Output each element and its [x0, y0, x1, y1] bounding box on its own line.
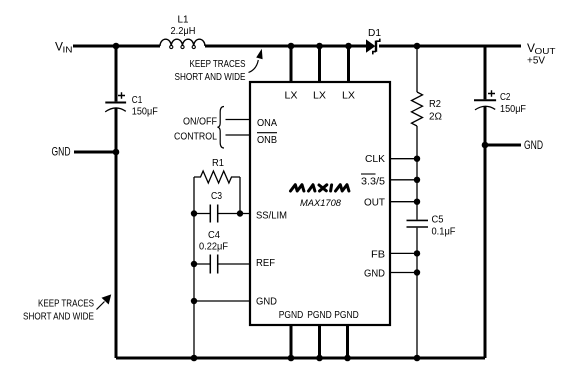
node junction C4 left [191, 261, 197, 267]
svg-text:0.22μF: 0.22μF [199, 241, 228, 253]
wire LX pin 1 [290, 45, 293, 83]
capacitor C2 [474, 90, 526, 115]
svg-text:150μF: 150μF [500, 103, 526, 115]
svg-text:IN: IN [63, 46, 73, 55]
svg-text:ONB: ONB [257, 134, 277, 146]
node junction bottom right thin rail [414, 355, 421, 362]
node junction FB [414, 250, 420, 256]
capacitor C1 [105, 92, 158, 117]
inductor L1 [160, 14, 205, 49]
svg-text:LX: LX [285, 90, 298, 102]
node VOUT label [527, 41, 556, 67]
svg-text:C4: C4 [208, 229, 220, 241]
pin label 3.3/5 (overline on 3.3) [361, 174, 385, 188]
wire ONB [226, 134, 251, 136]
node junction LX1 top [288, 43, 295, 50]
wire 3.3/5 pin [390, 179, 417, 181]
annotation KEEP TRACES SHORT AND WIDE (top) [175, 49, 263, 83]
svg-text:2.2μH: 2.2μH [171, 25, 196, 37]
svg-text:0.1μF: 0.1μF [432, 226, 456, 238]
node GND right [485, 138, 543, 152]
svg-text:C3: C3 [211, 190, 222, 202]
op-amp U1 MAX1708 IC box [250, 82, 390, 325]
node junction LX3 top [345, 43, 352, 50]
wire right thin rail bottom [416, 228, 418, 358]
resistor R2 [412, 92, 443, 126]
node junction bottom PGND1 [288, 355, 295, 362]
svg-text:MAX1708: MAX1708 [300, 198, 342, 209]
diode D1 (Schottky) [366, 27, 381, 54]
svg-text:GND: GND [52, 145, 71, 159]
node junction bottom PGND2 [316, 355, 323, 362]
wire right thin rail top [416, 46, 418, 92]
wire OUT pin [390, 201, 417, 203]
svg-text:PGND: PGND [307, 309, 332, 321]
svg-text:CLK: CLK [365, 153, 385, 165]
node GND left [52, 145, 117, 159]
node junction C3 left [191, 210, 197, 216]
wire FB pin [390, 252, 417, 254]
svg-text:LX: LX [342, 90, 355, 102]
node junction GND right rail [482, 142, 489, 149]
svg-text:+5V: +5V [527, 55, 545, 67]
svg-text:GND: GND [256, 296, 277, 308]
wire CLK pin [390, 158, 417, 160]
svg-text:KEEP TRACES: KEEP TRACES [38, 298, 94, 310]
svg-text:C2: C2 [500, 91, 511, 103]
svg-text:REF: REF [256, 257, 275, 269]
node junction LX2 top [316, 43, 323, 50]
svg-text:C1: C1 [132, 94, 143, 106]
wire PGND pin 1 [290, 325, 293, 358]
wire VIN to L1 [73, 45, 160, 48]
svg-text:150μF: 150μF [132, 105, 158, 117]
wire left rail upper [115, 45, 118, 102]
wire PGND pin 3 [346, 325, 349, 358]
capacitor C5 [407, 214, 456, 238]
svg-text:OUT: OUT [364, 197, 386, 209]
node VIN label [55, 40, 73, 55]
svg-text:ONA: ONA [257, 117, 277, 129]
wire D1 to VOUT [379, 45, 521, 48]
svg-text:LX: LX [313, 90, 326, 102]
svg-text:PGND: PGND [279, 309, 304, 321]
node junction bottom PGND3 [344, 355, 351, 362]
wire GND pin (IC right) [390, 272, 417, 274]
annotation KEEP TRACES SHORT AND WIDE (bottom) [23, 294, 111, 322]
pin labels LX [285, 90, 356, 102]
wire LX pin 3 [347, 45, 350, 83]
svg-text:D1: D1 [368, 27, 381, 39]
svg-text:2Ω: 2Ω [429, 111, 442, 123]
wire PGND pin 2 [318, 325, 321, 358]
svg-text:PGND: PGND [334, 309, 359, 321]
svg-text:GND: GND [364, 268, 385, 280]
svg-text:SHORT AND WIDE: SHORT AND WIDE [23, 311, 94, 323]
svg-text:3.3/5: 3.3/5 [361, 176, 385, 188]
wire right thin rail middle [416, 126, 418, 220]
wire ONA [226, 119, 251, 121]
svg-text:SS/LIM: SS/LIM [256, 210, 287, 222]
svg-text:SHORT AND WIDE: SHORT AND WIDE [175, 71, 246, 83]
node junction OUT [414, 199, 420, 205]
svg-text:ON/OFF: ON/OFF [183, 116, 217, 128]
svg-text:C5: C5 [432, 214, 444, 226]
wire R1 right drop [239, 177, 241, 214]
wire left rail lower [115, 108, 118, 358]
svg-text:KEEP TRACES: KEEP TRACES [190, 58, 246, 70]
wire right rail lower [484, 106, 487, 358]
resistor R1 [194, 157, 240, 183]
capacitor C3 [194, 190, 250, 223]
node junction GND right pin [414, 269, 420, 275]
ON/OFF CONTROL annotation with brace [174, 107, 224, 149]
node junction bottom left thin rail [191, 355, 198, 362]
node junction R2 top [414, 43, 421, 50]
svg-text:CONTROL: CONTROL [174, 131, 217, 143]
wire right rail upper [484, 45, 487, 100]
pin labels PGND [279, 309, 359, 321]
wire bottom bus [116, 357, 485, 360]
node junction GND wire [191, 298, 197, 304]
wire GND pin (IC left) [194, 300, 250, 302]
wire L1 to D1 [205, 45, 366, 48]
capacitor C4 [194, 229, 250, 274]
node junction C3 right [237, 210, 243, 216]
svg-text:FB: FB [371, 249, 385, 261]
node junction GND left rail [113, 149, 120, 156]
svg-text:R2: R2 [429, 98, 441, 110]
node junction VIN rail [113, 43, 120, 50]
wire left thin rail [193, 177, 195, 358]
pin label ONB (with overline) [257, 133, 277, 146]
svg-text:L1: L1 [178, 14, 189, 26]
MAXIM logo [291, 185, 349, 191]
node junction CLK [414, 156, 420, 162]
svg-text:R1: R1 [212, 157, 224, 169]
svg-text:GND: GND [524, 138, 543, 152]
wire LX pin 2 [318, 45, 321, 83]
node junction 3.3/5 [414, 177, 420, 183]
